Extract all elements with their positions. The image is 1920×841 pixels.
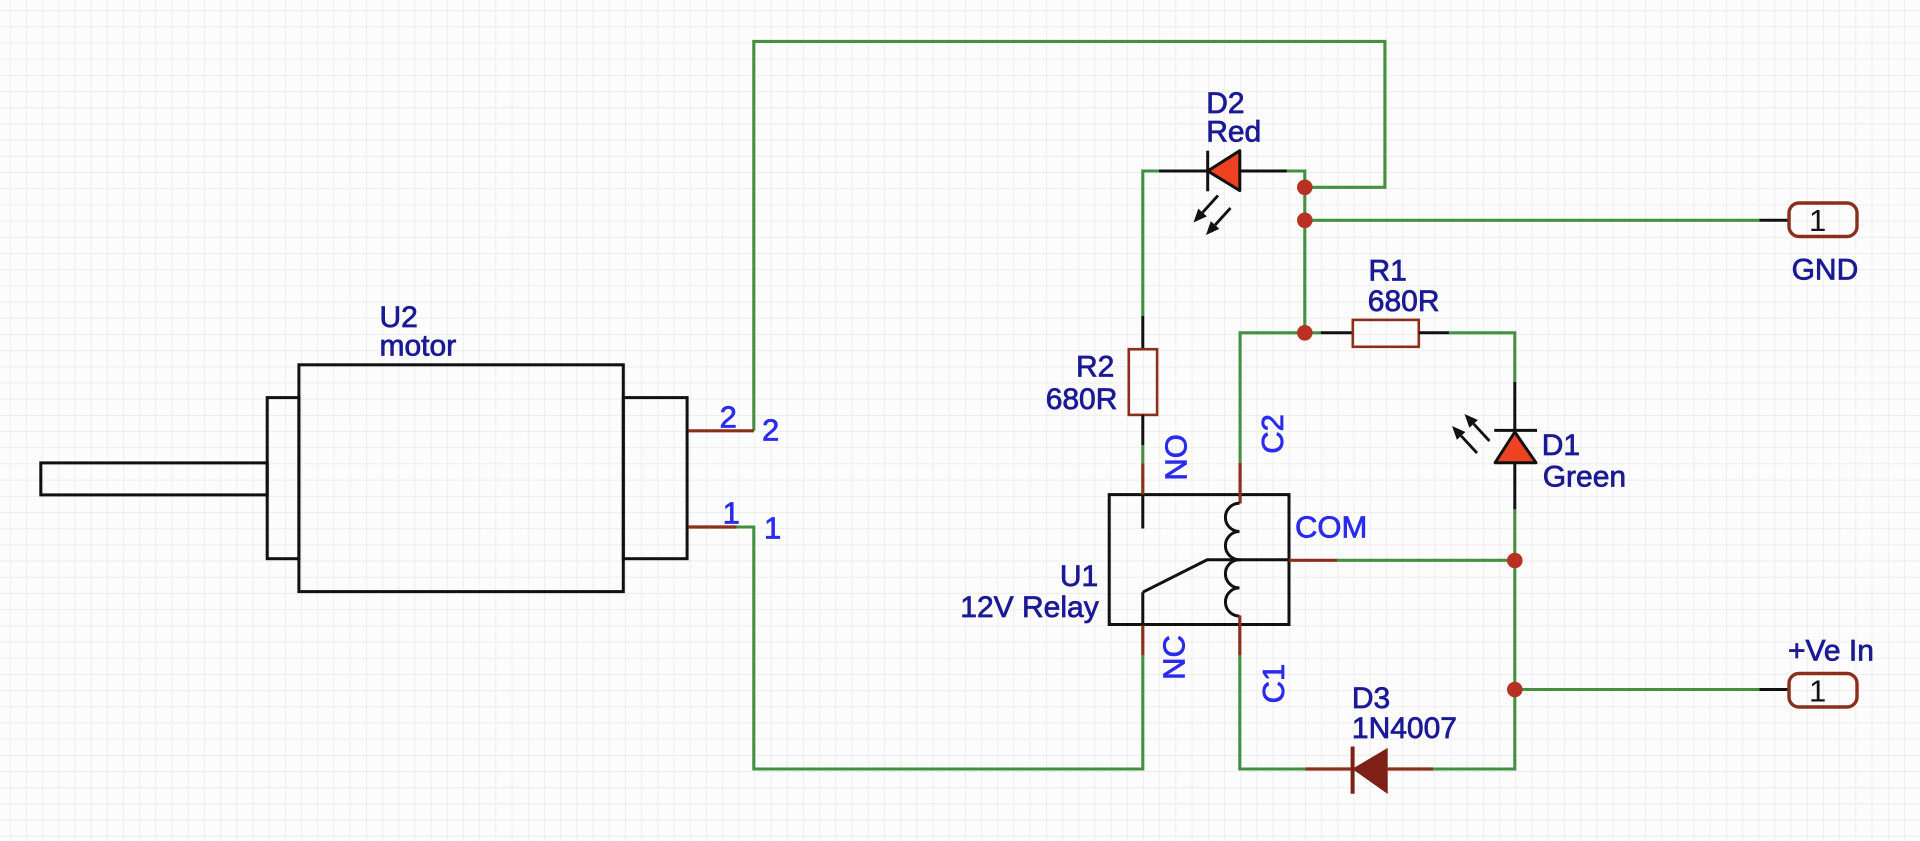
D1 light arrow a [1465,414,1490,441]
wire R2 to relay NO [1141,445,1144,463]
svg-text:12V Relay: 12V Relay [960,591,1098,624]
wire R1 left stub [1305,331,1321,334]
relay box [1109,495,1289,625]
relay NC stub [1141,592,1144,625]
motor right collar [623,398,687,559]
svg-text:680R: 680R [1046,383,1118,416]
D2 light arrow b [1206,208,1231,235]
svg-text:2: 2 [762,413,779,448]
R1 body [1353,320,1419,347]
D1 light arrow b [1452,426,1477,453]
D1 cathode lead [1513,382,1516,431]
junction node at D2 anode [1297,180,1313,196]
wire D3 cathode to +Ve In column [1433,690,1515,770]
svg-text:GND: GND [1792,254,1859,287]
svg-text:1: 1 [723,495,740,530]
D1 cathode bar [1494,429,1537,432]
wire D2 anode to R1 node [1287,171,1305,333]
wire GND [1305,219,1760,222]
wire D2 cathode branch [1143,171,1159,316]
D3 cathode lead [1387,767,1433,770]
LED D2 [1159,151,1287,235]
junction node at COM [1507,553,1523,569]
port GND [1760,203,1858,238]
D2 cathode lead [1159,170,1208,173]
GND lead [1760,219,1791,222]
wire motor pin 1 to relay NC [737,527,1143,769]
GND box [1789,203,1857,237]
resistor R1 [1321,320,1449,347]
R2 body [1129,349,1157,415]
wire R1 right to D1 [1449,333,1515,382]
R1 right lead [1419,331,1449,334]
svg-text:NC: NC [1157,635,1192,680]
svg-text:1: 1 [1809,673,1826,708]
motor left collar [267,398,299,559]
relay coil [1225,503,1239,616]
svg-text:+Ve In: +Ve In [1788,635,1874,668]
svg-text:D3: D3 [1352,682,1390,715]
D1 triangle [1495,432,1536,463]
relay NC pin [1141,625,1144,656]
relay C2 pin [1238,463,1241,504]
relay NO stub [1141,495,1144,529]
diode D3 [1305,747,1433,794]
R2 top lead [1141,316,1144,349]
wire R1 node to relay C2 [1240,333,1305,463]
svg-text:Green: Green [1543,461,1626,494]
motor pin 1 lead [688,525,737,528]
svg-text:R1: R1 [1369,255,1407,288]
svg-text:D1: D1 [1542,429,1580,462]
svg-text:1: 1 [1809,203,1826,238]
R2 bottom lead [1141,415,1144,445]
junction node at GND branch [1297,213,1313,229]
D2 anode lead [1240,170,1287,173]
+Ve In box [1789,674,1857,708]
wire relay COM to D1 column [1337,559,1515,562]
motor U2 [41,365,754,592]
D2 light arrow a [1194,196,1219,223]
D2 triangle [1208,151,1240,191]
svg-text:1N4007: 1N4007 [1352,712,1457,745]
relay COM pin [1289,559,1337,562]
LED D1 [1452,382,1537,509]
D3 triangle [1354,750,1387,793]
junction node at R1 left [1297,325,1313,341]
port +Ve In [1760,673,1858,708]
svg-text:Red: Red [1206,116,1261,149]
junction node at +Ve In [1507,682,1523,698]
D3 anode lead [1305,767,1352,770]
+Ve In lead [1760,688,1791,691]
D1 anode lead [1513,463,1516,510]
R1 left lead [1321,331,1353,334]
svg-text:1: 1 [764,511,781,546]
D3 cathode bar [1351,747,1355,794]
motor body [299,365,623,592]
motor pin 2 lead [688,429,754,432]
svg-text:680R: 680R [1368,285,1440,318]
wire D1 cathode top stub [1513,509,1516,689]
wire +Ve In [1515,688,1760,691]
relay NO pin [1141,463,1144,495]
svg-text:C2: C2 [1255,414,1290,454]
svg-text:R2: R2 [1076,351,1114,384]
wire top net from motor pin 2 to GND branch [754,41,1385,430]
D2 cathode bar [1206,151,1209,192]
motor shaft [41,463,267,495]
svg-text:2: 2 [720,399,737,434]
svg-text:U1: U1 [1060,560,1098,593]
wire relay C1 to D3 anode [1240,655,1306,769]
relay C1 pin [1238,616,1241,656]
svg-text:COM: COM [1295,510,1367,545]
svg-text:motor: motor [380,330,457,363]
relay U1 [1109,463,1337,656]
resistor R2 [1129,316,1157,445]
relay switch arm [1143,560,1289,592]
svg-text:C1: C1 [1256,664,1291,704]
svg-text:NO: NO [1159,434,1194,481]
